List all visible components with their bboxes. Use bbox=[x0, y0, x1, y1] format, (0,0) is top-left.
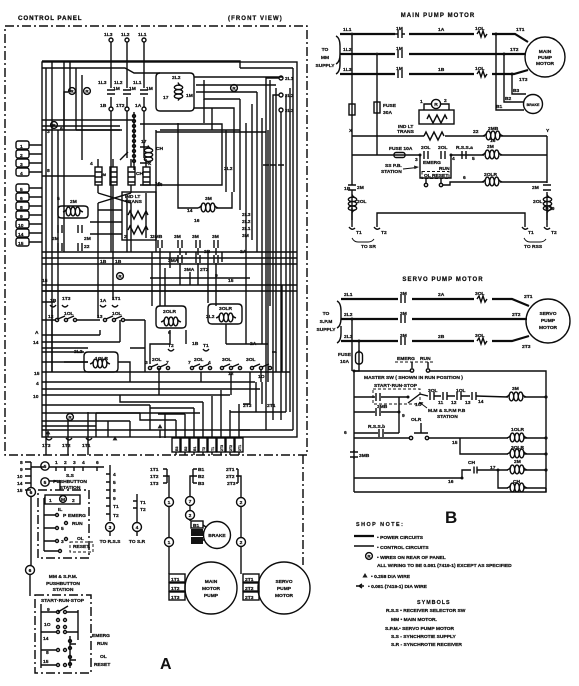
wire bottom right elbows bbox=[230, 285, 293, 430]
wire left lower horizontals bbox=[42, 310, 250, 455]
mark R b bbox=[84, 88, 91, 95]
svg-text:3MB: 3MB bbox=[359, 453, 370, 459]
svg-text:3: 3 bbox=[73, 460, 76, 466]
svg-text:S.S - SYNCHROTIE SUPPLY: S.S - SYNCHROTIE SUPPLY bbox=[391, 634, 457, 640]
wire 2L1 run bbox=[266, 78, 281, 430]
bus rows mid panel bbox=[42, 252, 297, 258]
triangle mark a bbox=[46, 430, 51, 434]
svg-text:1T2: 1T2 bbox=[150, 474, 159, 480]
terminal box B1 bbox=[191, 521, 203, 528]
node circled 3 bbox=[106, 523, 115, 532]
svg-text:2L2: 2L2 bbox=[206, 314, 215, 320]
strip stubs bbox=[29, 145, 42, 242]
triangle wire mark bbox=[362, 573, 367, 578]
svg-text:2: 2 bbox=[64, 460, 67, 466]
svg-text:B2: B2 bbox=[505, 96, 512, 102]
svg-text:3MB: 3MB bbox=[377, 404, 388, 410]
svg-text:1L1: 1L1 bbox=[138, 32, 147, 38]
svg-text:1B: 1B bbox=[438, 67, 445, 73]
svg-text:22: 22 bbox=[84, 244, 90, 250]
svg-text:STATION: STATION bbox=[53, 587, 74, 593]
wire left edge bundle bbox=[42, 62, 135, 160]
svg-text:30A: 30A bbox=[383, 110, 392, 116]
svg-text:1L3: 1L3 bbox=[343, 67, 352, 73]
supply entry 1L2 bbox=[125, 38, 129, 42]
coil 3OLR bbox=[460, 438, 546, 454]
svg-text:16: 16 bbox=[490, 138, 496, 144]
svg-text:2T2: 2T2 bbox=[226, 474, 235, 480]
svg-text:(FRONT VIEW): (FRONT VIEW) bbox=[228, 16, 283, 22]
wire from coil box right bbox=[194, 76, 283, 78]
motor M2 circle bbox=[526, 299, 570, 343]
terminal 2L3 bbox=[279, 108, 283, 112]
svg-text:1: 1 bbox=[55, 460, 58, 466]
svg-text:14: 14 bbox=[43, 636, 49, 642]
wire right bundle horiz rungs bbox=[42, 130, 297, 291]
svg-text:6: 6 bbox=[96, 460, 99, 466]
svg-text:S.P.M.• SERVO PUMP MOTOR: S.P.M.• SERVO PUMP MOTOR bbox=[385, 626, 454, 632]
svg-text:MOTOR: MOTOR bbox=[536, 61, 555, 67]
svg-text:14: 14 bbox=[33, 340, 39, 346]
svg-text:1B: 1B bbox=[344, 186, 351, 192]
svg-text:14: 14 bbox=[17, 481, 23, 487]
svg-text:EMERG: EMERG bbox=[68, 513, 86, 519]
svg-text:1L2: 1L2 bbox=[114, 80, 123, 86]
svg-text:2: 2 bbox=[72, 498, 75, 504]
svg-text:T1: T1 bbox=[211, 447, 215, 451]
svg-text:3: 3 bbox=[415, 157, 418, 163]
svg-text:2T2: 2T2 bbox=[245, 586, 254, 592]
svg-text:14: 14 bbox=[187, 208, 193, 214]
coil 2M mid bbox=[486, 469, 546, 471]
wire right bundle extra verticals bbox=[257, 68, 293, 430]
svg-text:B3: B3 bbox=[193, 539, 199, 544]
svg-text:TO S.R: TO S.R bbox=[129, 539, 146, 545]
wire left top risers bbox=[46, 61, 68, 252]
cap CH bbox=[462, 467, 486, 479]
svg-text:2M: 2M bbox=[532, 185, 539, 191]
contact RSSb rung bbox=[354, 432, 399, 434]
svg-text:8: 8 bbox=[113, 488, 116, 494]
wire right column jogs bbox=[194, 80, 262, 123]
coil 2MB bbox=[483, 131, 503, 140]
node circled 1 bbox=[165, 498, 174, 507]
wire to fuse2 bbox=[376, 54, 378, 102]
svg-text:1T3: 1T3 bbox=[519, 77, 528, 83]
svg-text:2OL: 2OL bbox=[194, 357, 204, 363]
wire upper cross h bbox=[42, 129, 122, 131]
svg-text:RESET: RESET bbox=[94, 662, 110, 668]
wire 2L1 bbox=[341, 299, 529, 306]
resistor in box bbox=[427, 115, 447, 123]
svg-text:TRANS: TRANS bbox=[397, 129, 415, 135]
wire cut ticks bbox=[263, 164, 284, 166]
svg-text:17: 17 bbox=[163, 95, 169, 101]
switch blade bbox=[408, 394, 420, 403]
svg-text:TO R.S.S: TO R.S.S bbox=[100, 539, 122, 545]
wire bottom exit verticals bbox=[48, 412, 88, 437]
wire 2L2 bundle right bbox=[240, 80, 290, 372]
svg-text:B2: B2 bbox=[198, 474, 205, 480]
svg-text:PUMP: PUMP bbox=[204, 593, 219, 599]
svg-text:1L3: 1L3 bbox=[98, 80, 107, 86]
svg-text:CH: CH bbox=[156, 146, 164, 152]
wire mid verticals extra2 bbox=[156, 123, 208, 306]
contact row 2 with 2B 2A bbox=[178, 255, 218, 263]
terminal box 2T1 bbox=[243, 574, 259, 582]
svg-text:OLR: OLR bbox=[411, 417, 422, 423]
left rail down bbox=[351, 136, 353, 220]
relay 1M coil box bbox=[156, 73, 194, 111]
svg-text:M: M bbox=[61, 497, 65, 503]
svg-text:2T3: 2T3 bbox=[522, 344, 531, 350]
svg-text:RUN: RUN bbox=[420, 356, 431, 362]
svg-text:MOTOR: MOTOR bbox=[539, 325, 558, 331]
svg-text:22: 22 bbox=[473, 129, 479, 135]
svg-text:3M: 3M bbox=[400, 311, 407, 317]
svg-text:3M: 3M bbox=[400, 291, 407, 297]
bus rows 2 bbox=[42, 285, 297, 291]
svg-text:1B: 1B bbox=[50, 298, 57, 304]
coil 2M bbox=[482, 150, 502, 159]
contacts 2M pair b bbox=[78, 225, 82, 251]
svg-text:1OLR: 1OLR bbox=[511, 427, 525, 433]
svg-text:3MB: 3MB bbox=[152, 234, 163, 240]
wire olr feeds bbox=[64, 330, 170, 382]
svg-text:8: 8 bbox=[20, 205, 23, 211]
svg-text:2: 2 bbox=[20, 153, 23, 159]
pole d bbox=[143, 167, 150, 185]
svg-text:2B: 2B bbox=[438, 334, 445, 340]
svg-text:• POWER CIRCUITS: • POWER CIRCUITS bbox=[377, 535, 424, 541]
wire left rails bbox=[46, 130, 58, 436]
pole c bbox=[128, 167, 135, 185]
contact RSSa bbox=[462, 151, 466, 159]
wire top bus 2 jog bbox=[42, 68, 160, 73]
contact 3MB bbox=[354, 397, 399, 433]
svg-text:2T1: 2T1 bbox=[524, 294, 533, 300]
svg-text:1OL: 1OL bbox=[475, 26, 485, 32]
wire 1L2 line bbox=[340, 53, 525, 55]
svg-text:1T3: 1T3 bbox=[171, 595, 180, 601]
svg-text:T2: T2 bbox=[551, 230, 557, 236]
terminal box B2 bbox=[191, 529, 203, 536]
terminal box B3 bbox=[191, 537, 203, 544]
svg-text:B2: B2 bbox=[193, 531, 199, 536]
svg-text:4: 4 bbox=[136, 525, 139, 531]
rear of panel mark bbox=[366, 553, 373, 560]
contacts 2M pair a bbox=[58, 225, 62, 251]
svg-text:S.R - SYNCHROTIE RECEIVER: S.R - SYNCHROTIE RECEIVER bbox=[391, 642, 462, 648]
mark R c bbox=[231, 85, 238, 92]
svg-text:MM • MAIN MOTOR.: MM • MAIN MOTOR. bbox=[391, 617, 438, 623]
svg-text:MASTER SW ( SHOWN IN RUN POSIT: MASTER SW ( SHOWN IN RUN POSITION ) bbox=[364, 375, 463, 381]
contact dots grid bbox=[57, 611, 60, 614]
panel inner solid box bbox=[42, 62, 297, 437]
coil CH bottom bbox=[498, 470, 546, 488]
svg-text:B3: B3 bbox=[513, 88, 520, 94]
svg-text:6: 6 bbox=[20, 196, 23, 202]
svg-text:2OL: 2OL bbox=[438, 145, 448, 151]
svg-text:1L1: 1L1 bbox=[133, 80, 142, 86]
overload 1OL line1 bbox=[477, 31, 487, 37]
svg-text:1M: 1M bbox=[396, 26, 403, 32]
terminal 2L1 bbox=[279, 76, 283, 80]
terminal column B bbox=[133, 494, 137, 522]
svg-text:1A: 1A bbox=[100, 298, 107, 304]
svg-text:1O: 1O bbox=[44, 622, 51, 628]
svg-text:PUSHBUTTON: PUSHBUTTON bbox=[46, 581, 80, 587]
svg-text:3OL: 3OL bbox=[222, 357, 232, 363]
resistor a bbox=[128, 211, 148, 219]
svg-text:1OL: 1OL bbox=[456, 388, 466, 394]
contactor group quad bbox=[90, 152, 152, 210]
svg-text:TO: TO bbox=[322, 47, 329, 53]
wire 3M feeds bbox=[178, 192, 232, 208]
svg-text:3OL: 3OL bbox=[475, 291, 485, 297]
svg-text:8: 8 bbox=[46, 650, 49, 656]
svg-text:• 0.258 DIA WIRE: • 0.258 DIA WIRE bbox=[371, 574, 411, 580]
svg-text:5: 5 bbox=[61, 526, 64, 532]
svg-text:2A: 2A bbox=[438, 292, 445, 298]
svg-text:2M: 2M bbox=[70, 199, 77, 205]
svg-text:4: 4 bbox=[113, 472, 116, 478]
wire verticals from contactor bbox=[98, 201, 146, 318]
svg-text:10: 10 bbox=[33, 394, 39, 400]
bottom rail bbox=[354, 488, 546, 492]
svg-text:1: 1 bbox=[168, 500, 171, 506]
svg-text:FUSE 10A: FUSE 10A bbox=[389, 146, 413, 152]
wire upper right feeds bbox=[196, 85, 276, 130]
svg-text:6: 6 bbox=[463, 175, 466, 181]
terminal column A bbox=[106, 465, 110, 521]
svg-text:PUMP: PUMP bbox=[277, 586, 292, 592]
terminal box 1T3 bbox=[169, 592, 185, 600]
wire vertical mid b bbox=[126, 111, 128, 252]
svg-text:2M: 2M bbox=[101, 173, 106, 177]
svg-text:EMERG: EMERG bbox=[423, 160, 441, 166]
right rail bbox=[545, 397, 547, 492]
wire to fuse1 bbox=[351, 34, 353, 104]
svg-text:2: 2 bbox=[240, 540, 243, 546]
svg-text:8: 8 bbox=[20, 460, 23, 466]
svg-text:1: 1 bbox=[420, 99, 423, 105]
svg-text:1OLR: 1OLR bbox=[95, 356, 109, 362]
svg-text:2OL: 2OL bbox=[152, 357, 162, 363]
svg-text:A: A bbox=[160, 656, 172, 673]
svg-text:2T1: 2T1 bbox=[238, 445, 242, 451]
terminal box 2T2 bbox=[243, 583, 259, 591]
contact circles below reset bbox=[424, 183, 427, 186]
overload 3OL line3 bbox=[477, 338, 487, 344]
node dots supply bbox=[351, 33, 354, 36]
svg-text:3M: 3M bbox=[192, 234, 199, 240]
svg-text:MAIN: MAIN bbox=[205, 579, 218, 585]
svg-text:T1: T1 bbox=[140, 500, 146, 506]
svg-text:IL: IL bbox=[58, 507, 62, 513]
right rail down bbox=[546, 136, 548, 220]
svg-text:RUN: RUN bbox=[72, 521, 83, 527]
svg-text:A: A bbox=[35, 330, 39, 336]
svg-text:1T2: 1T2 bbox=[171, 586, 180, 592]
svg-text:SERVO: SERVO bbox=[275, 579, 292, 585]
coil 1M bbox=[174, 83, 182, 101]
node circles 1B 1T2 1A bbox=[109, 107, 113, 111]
svg-text:2: 2 bbox=[189, 513, 192, 519]
wire station links bbox=[31, 467, 60, 490]
svg-text:2L2: 2L2 bbox=[172, 75, 181, 81]
svg-text:2MB: 2MB bbox=[488, 126, 499, 132]
ind lt trans panel box bbox=[122, 192, 156, 240]
svg-text:SYMBOLS: SYMBOLS bbox=[417, 600, 451, 606]
svg-text:FUSE: FUSE bbox=[383, 103, 397, 109]
svg-text:1L2: 1L2 bbox=[121, 32, 130, 38]
svg-text:14: 14 bbox=[18, 232, 24, 238]
svg-text:2OLR: 2OLR bbox=[163, 309, 177, 315]
svg-text:2OL: 2OL bbox=[533, 199, 543, 205]
svg-text:SS P.B.: SS P.B. bbox=[385, 163, 402, 169]
power circuits legend line bbox=[354, 535, 374, 537]
node dot fuse tap bbox=[358, 340, 361, 343]
svg-text:MM & S.P.M.: MM & S.P.M. bbox=[49, 574, 78, 580]
svg-text:R.S.S • RECEIVER SELECTOR SW: R.S.S • RECEIVER SELECTOR SW bbox=[386, 608, 466, 614]
svg-text:2OL: 2OL bbox=[421, 145, 431, 151]
contact 1M line2 bbox=[398, 50, 402, 58]
svg-text:2L1: 2L1 bbox=[344, 292, 353, 298]
svg-text:B1: B1 bbox=[193, 523, 200, 529]
svg-text:B1: B1 bbox=[496, 104, 503, 110]
svg-text:1L2: 1L2 bbox=[343, 47, 352, 53]
svg-text:15: 15 bbox=[452, 440, 458, 446]
crossover X bbox=[98, 152, 131, 210]
svg-text:RUN: RUN bbox=[97, 641, 108, 647]
wire bottom horiz extra bbox=[42, 320, 120, 352]
node circled 4 bbox=[133, 523, 142, 532]
svg-text:TO RSS: TO RSS bbox=[524, 244, 543, 250]
svg-text:3M: 3M bbox=[174, 234, 181, 240]
svg-text:3: 3 bbox=[20, 162, 23, 168]
svg-text:FUSE: FUSE bbox=[338, 352, 352, 358]
control circuits legend line bbox=[354, 545, 374, 547]
wire right maze bbox=[226, 252, 290, 412]
rung 15 bbox=[354, 437, 500, 439]
svg-text:OL: OL bbox=[77, 536, 84, 542]
svg-text:CONTROL PANEL: CONTROL PANEL bbox=[18, 15, 82, 22]
motor main pump circle bbox=[185, 562, 237, 614]
svg-text:ALL WIRING TO BE 0.081 (7419-1: ALL WIRING TO BE 0.081 (7419-1) EXCEPT A… bbox=[377, 563, 512, 569]
mark R a bbox=[69, 88, 76, 95]
contactor bars 1M x3 bbox=[107, 90, 115, 94]
contact 3M line2 bbox=[401, 315, 405, 323]
triangle mark b bbox=[113, 436, 118, 440]
svg-text:2L2: 2L2 bbox=[344, 312, 353, 318]
wire top bus 1 bbox=[42, 60, 160, 62]
svg-text:3M: 3M bbox=[512, 386, 519, 392]
svg-text:1M: 1M bbox=[186, 93, 193, 99]
svg-text:• CONTROL CIRCUITS: • CONTROL CIRCUITS bbox=[377, 545, 429, 551]
svg-text:B1: B1 bbox=[193, 446, 197, 451]
svg-text:CH: CH bbox=[468, 460, 476, 466]
svg-text:MAIN: MAIN bbox=[539, 49, 552, 55]
svg-text:2T1: 2T1 bbox=[267, 403, 276, 409]
motor servo pump circle bbox=[258, 562, 310, 614]
svg-text:SERVO PUMP MOTOR: SERVO PUMP MOTOR bbox=[402, 277, 483, 283]
svg-text:S.S: S.S bbox=[66, 473, 75, 479]
contact 2OL a bbox=[424, 151, 428, 159]
svg-text:1L1: 1L1 bbox=[343, 27, 352, 33]
wire bottom region verticals bbox=[159, 285, 282, 395]
terminal hooks T1 T2 right bbox=[522, 227, 550, 229]
node circled 7 bbox=[186, 497, 195, 506]
svg-text:2M: 2M bbox=[84, 236, 91, 242]
rung CH bbox=[354, 477, 462, 479]
svg-text:5: 5 bbox=[113, 480, 116, 486]
svg-text:2OLR: 2OLR bbox=[484, 172, 498, 178]
svg-text:6: 6 bbox=[29, 568, 32, 574]
svg-text:OL: OL bbox=[100, 654, 107, 660]
svg-text:9: 9 bbox=[402, 413, 405, 419]
svg-text:15: 15 bbox=[34, 371, 40, 377]
wire mid verticals extra bbox=[152, 123, 234, 306]
resistor b bbox=[128, 226, 148, 234]
supply entry 1L3 bbox=[109, 38, 113, 42]
svg-text:9: 9 bbox=[113, 496, 116, 502]
svg-text:2M: 2M bbox=[487, 144, 494, 150]
pole b bbox=[110, 167, 117, 185]
svg-text:4: 4 bbox=[20, 171, 23, 177]
svg-text:SUPPLY: SUPPLY bbox=[315, 63, 335, 69]
wire upper long horiz bbox=[42, 413, 176, 421]
svg-text:1: 1 bbox=[20, 144, 23, 150]
supply entry 1L1 bbox=[142, 38, 146, 42]
svg-text:3M: 3M bbox=[400, 333, 407, 339]
svg-text:4: 4 bbox=[90, 161, 93, 167]
terminal box 2T3 bbox=[243, 592, 259, 600]
svg-text:3M: 3M bbox=[205, 196, 212, 202]
svg-text:T2: T2 bbox=[113, 513, 119, 519]
relay CH outline box bbox=[140, 124, 222, 185]
svg-text:8: 8 bbox=[47, 168, 50, 174]
svg-text:S.P.M: S.P.M bbox=[320, 319, 333, 325]
svg-text:2T2: 2T2 bbox=[512, 312, 521, 318]
emerg run box bbox=[420, 155, 451, 178]
svg-text:1T2: 1T2 bbox=[510, 47, 519, 53]
cap 3MB left bbox=[350, 450, 358, 459]
svg-text:4: 4 bbox=[36, 381, 39, 387]
fuse F2 30A bbox=[374, 102, 380, 113]
contact 1M line3 bbox=[398, 70, 402, 78]
svg-text:10: 10 bbox=[17, 474, 23, 480]
svg-text:1M: 1M bbox=[146, 86, 153, 92]
svg-text:MOTOR: MOTOR bbox=[202, 586, 221, 592]
terminal box 1T2 bbox=[169, 583, 185, 591]
svg-text:1: 1 bbox=[168, 540, 171, 546]
svg-text:MOTOR: MOTOR bbox=[275, 593, 294, 599]
coil 2OL right bbox=[543, 195, 551, 213]
svg-text:1T1: 1T1 bbox=[82, 443, 91, 449]
svg-text:5: 5 bbox=[472, 156, 475, 162]
node circled 2 b bbox=[237, 498, 246, 507]
svg-text:• WIRES ON REAR OF PANEL: • WIRES ON REAR OF PANEL bbox=[377, 555, 446, 561]
svg-text:1L3: 1L3 bbox=[104, 32, 113, 38]
contact bars chain bbox=[430, 392, 434, 400]
svg-text:15: 15 bbox=[42, 278, 48, 284]
node circled 2 c bbox=[237, 538, 246, 547]
svg-text:PUMP: PUMP bbox=[538, 55, 553, 61]
svg-text:2M: 2M bbox=[357, 185, 364, 191]
bottom terminal strip bbox=[172, 438, 180, 452]
svg-text:14: 14 bbox=[478, 399, 484, 405]
